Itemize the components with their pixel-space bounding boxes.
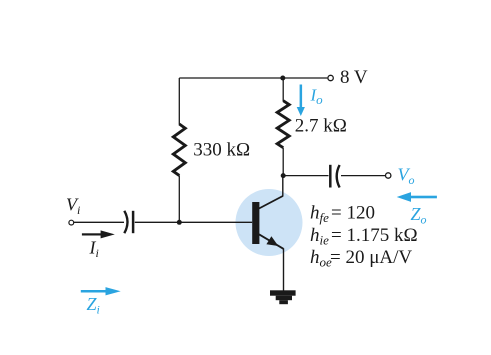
node collector junction: [281, 173, 286, 178]
current arrow Ii: [82, 230, 115, 238]
resistor RC 2.7k: [277, 101, 289, 148]
svg-text:hoe: hoe: [310, 247, 332, 270]
terminal Vi: [69, 220, 74, 225]
impedance arrow Zo: [397, 192, 437, 202]
svg-text:Zi: Zi: [87, 294, 100, 317]
wire top rail: [179, 77, 327, 79]
svg-text:hfe: hfe: [310, 203, 329, 226]
node Vcc junction: [280, 76, 285, 81]
resistor RB 330k: [173, 124, 185, 176]
svg-text:Vi: Vi: [66, 195, 80, 218]
ground: [270, 290, 296, 304]
transistor Q1 highlight circle: [236, 189, 303, 256]
wire RB to base junction: [178, 176, 180, 223]
wire C2 to Vo terminal: [341, 175, 385, 177]
wire Vcc to RC: [282, 78, 284, 101]
svg-text:= 20 μA/V: = 20 μA/V: [330, 247, 412, 268]
wire C1 to base: [135, 221, 252, 223]
svg-text:Vo: Vo: [398, 165, 415, 188]
svg-text:= 1.175 kΩ: = 1.175 kΩ: [331, 225, 418, 246]
terminal 8V supply: [328, 75, 333, 80]
transistor Q1: [252, 196, 283, 249]
wire emitter vertical: [283, 248, 285, 290]
current arrow Io: [297, 85, 305, 117]
capacitor C1: [124, 211, 133, 233]
node base junction: [177, 220, 182, 225]
terminal Vo: [386, 173, 391, 178]
svg-text:Zo: Zo: [411, 204, 427, 227]
svg-text:8 V: 8 V: [340, 67, 368, 88]
wire collector vertical: [282, 176, 284, 196]
wire RC to collector junction: [282, 148, 284, 177]
svg-text:330 kΩ: 330 kΩ: [193, 140, 250, 161]
wire top rail to RB: [178, 78, 180, 125]
svg-text:2.7 kΩ: 2.7 kΩ: [295, 116, 347, 137]
svg-text:Io: Io: [310, 86, 324, 108]
wire Vi terminal to C1: [74, 221, 124, 223]
svg-text:Ii: Ii: [89, 238, 99, 261]
svg-text:hie: hie: [310, 225, 329, 248]
wire collector junction to C2: [283, 175, 328, 177]
svg-text:= 120: = 120: [331, 203, 375, 224]
capacitor C2: [330, 165, 339, 188]
impedance arrow Zi: [81, 287, 121, 295]
